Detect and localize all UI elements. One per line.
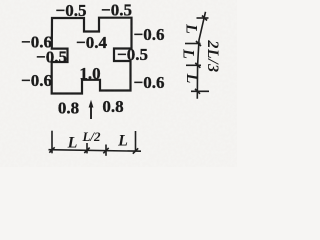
tick bar 2 (185, 43, 201, 45)
extension line 4 (135, 131, 137, 151)
extension line 2 (86, 143, 88, 153)
tick slash 4 (195, 89, 200, 94)
load arrow pointing up at bottom notch (89, 100, 94, 119)
dimension line (vertical) (197, 12, 205, 99)
tick slash 2 (196, 41, 201, 46)
bottom dimension chain (49, 131, 142, 156)
tick slash 3 (195, 63, 200, 68)
tick bar 1 (197, 17, 209, 19)
tick slash 4 (133, 148, 138, 153)
tick slash 1 (49, 147, 54, 152)
tick bar 4 (191, 90, 209, 92)
dimension line (49, 150, 142, 152)
extension line 1 (51, 131, 53, 154)
tick bar 3 (186, 64, 201, 66)
tick slash 3 (103, 148, 108, 153)
tick slash 2 (84, 148, 89, 153)
extension line 3 (105, 145, 107, 156)
scan noise texture (0, 0, 1, 1)
cross-section outline with four edge notches (52, 18, 132, 94)
right dimension chain (185, 12, 209, 99)
tick slash 1 (202, 16, 207, 21)
